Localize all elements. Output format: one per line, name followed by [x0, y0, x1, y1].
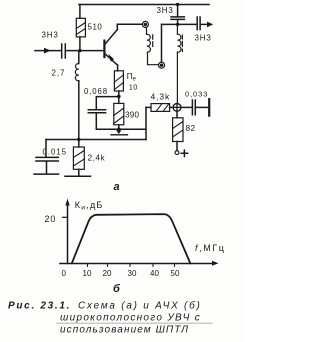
ground (arrow chassis, emitter network)	[111, 130, 128, 134]
wire: 4,3k left leg down to bottom rail	[145, 107, 147, 139]
capacitor 3Н3 (rail decoupling)	[171, 5, 184, 25]
capacitor 0.015	[36, 140, 58, 174]
svg-text:а: а	[114, 181, 120, 193]
node: output connector circle	[173, 104, 181, 112]
graph: X axis	[60, 261, 219, 266]
svg-text:10: 10	[83, 269, 92, 278]
resistor Пе 10 (emitter)	[114, 71, 123, 91]
svg-text:50: 50	[171, 269, 180, 278]
svg-text:Рис. 23.1.: Рис. 23.1.	[8, 300, 71, 311]
transformer T1 polarity dot (winding 1 top)	[142, 21, 148, 27]
resistor 2,4k	[73, 140, 84, 176]
svg-text:Пе: Пе	[127, 72, 137, 83]
capacitor 0,033	[181, 99, 209, 115]
wire: bottom bias rail	[46, 139, 146, 141]
svg-text:390: 390	[125, 110, 139, 119]
svg-text:0,033: 0,033	[185, 90, 208, 99]
svg-text:20: 20	[45, 214, 57, 224]
capacitor input 3Н3	[62, 44, 66, 58]
svg-text:82: 82	[186, 123, 196, 133]
wire: cap to transistor base	[65, 50, 103, 52]
svg-text:3Н3: 3Н3	[42, 31, 59, 40]
svg-text:0.015: 0.015	[43, 147, 68, 156]
svg-text:использованием ШПТЛ: использованием ШПТЛ	[60, 324, 189, 335]
wire: choke to bottom rail	[78, 81, 80, 140]
graph: X ticks	[88, 264, 175, 267]
wire: Пе bottom to junction	[118, 91, 120, 103]
svg-text:Ки,дБ: Ки,дБ	[75, 200, 104, 212]
svg-text:2,4k: 2,4k	[88, 152, 106, 162]
svg-text:3Н3: 3Н3	[195, 34, 212, 43]
resistor 4,3k	[146, 104, 173, 112]
node: emitter network bottom junction	[117, 128, 121, 132]
svg-text:2,7: 2,7	[52, 69, 66, 78]
svg-text:Схема (а) и АЧХ (б): Схема (а) и АЧХ (б)	[78, 299, 202, 311]
svg-text:б: б	[113, 283, 121, 295]
transformer T1 winding 2	[177, 24, 181, 103]
graph: response curve	[72, 214, 191, 263]
wire: top supply rail	[79, 4, 209, 6]
svg-text:3Н3: 3Н3	[157, 6, 174, 15]
svg-text:30: 30	[128, 269, 137, 278]
svg-text:0,068: 0,068	[84, 87, 108, 96]
transformer T1 winding 1	[147, 27, 159, 64]
capacitor 3Н3 (output top)	[197, 17, 213, 30]
caption line 1	[8, 299, 202, 335]
ground (under 2,4k)	[65, 175, 91, 177]
svg-text:20: 20	[103, 269, 112, 278]
svg-text:4,3k: 4,3k	[151, 92, 171, 102]
svg-text:510: 510	[88, 23, 103, 32]
wire: emitter to Пе resistor	[117, 65, 119, 71]
resistor 82	[173, 111, 183, 141]
wire: tap up to coupling node	[161, 24, 163, 62]
resistor 390	[114, 103, 124, 124]
wire: left bias rail	[78, 51, 80, 64]
wire: collector up and to transformer	[117, 24, 142, 29]
inductor 2,7 (choke)	[75, 64, 78, 81]
transformer T1 polarity dot (winding 1 bottom tap)	[159, 62, 165, 68]
node: base bias junction	[78, 49, 81, 52]
wire: coupling node horizontal	[162, 23, 197, 25]
capacitor 0,068 branch	[88, 97, 119, 130]
node: junction on top rail	[176, 3, 179, 6]
terminal +	[175, 142, 179, 155]
graph: Y tick 20	[63, 216, 68, 218]
scan artifact: faint streak under caption line 2	[57, 322, 212, 324]
wire: 390 bottom	[118, 125, 120, 130]
wire: network bottom to 4,3k leg	[119, 128, 146, 130]
transformer T1 core (dashed, winding 2)	[181, 35, 183, 51]
ground (under 0.015)	[34, 173, 59, 175]
svg-text:0: 0	[62, 269, 67, 278]
node: junction under top cap	[176, 23, 179, 26]
graph: X tick labels	[62, 269, 180, 278]
wire: rail corner down to R 510	[79, 5, 81, 19]
svg-text:40: 40	[150, 269, 159, 278]
transistor VT1	[103, 30, 117, 66]
svg-text:широкополосного УВЧ с: широкополосного УВЧ с	[60, 312, 201, 323]
wire: R510 bottom to base node	[79, 37, 81, 51]
graph: Y axis	[65, 199, 69, 264]
input arrow	[35, 48, 62, 54]
svg-text:f,МГц: f,МГц	[195, 243, 226, 253]
label +	[181, 150, 187, 156]
node: emitter network top junction	[117, 95, 121, 99]
resistor 510	[76, 18, 85, 37]
svg-text:10: 10	[129, 82, 138, 91]
node: junction at 2,4k top	[77, 138, 80, 141]
transformer T1 core (dashed, winding 1)	[152, 35, 154, 47]
